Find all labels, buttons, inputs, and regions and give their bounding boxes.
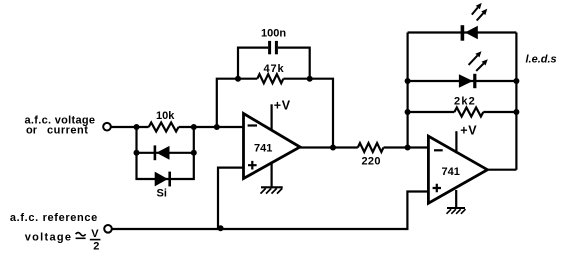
- supply +V lead of U1: [272, 98, 291, 131]
- svg-text:100n: 100n: [261, 28, 286, 40]
- wire: U2 output up right side: [487, 169, 516, 171]
- diode D1 (points left): [155, 145, 170, 160]
- diode D2 Si (points right): [155, 172, 170, 200]
- svg-text:V: V: [91, 228, 99, 240]
- ground of U2: [447, 190, 466, 214]
- wire: led row 1 (top): [408, 31, 517, 33]
- label: a.f.c. reference voltage ~ V/2: [10, 212, 101, 252]
- wire: led row 2: [408, 80, 517, 82]
- ground of U1: [261, 162, 283, 194]
- resistor R2 47k: [257, 63, 284, 83]
- reference terminal (a.f.c. reference voltage): [104, 225, 112, 233]
- svg-text:2k2: 2k2: [454, 95, 476, 107]
- svg-text:10k: 10k: [156, 110, 175, 122]
- svg-text:2: 2: [93, 240, 99, 252]
- svg-text:741: 741: [442, 166, 460, 178]
- op-amp U2 741: [428, 136, 487, 203]
- node: U2 inverting node / led box left: [405, 145, 411, 151]
- svg-text:a.f.c. reference: a.f.c. reference: [10, 212, 98, 224]
- svg-text:l.e.d.s: l.e.d.s: [526, 54, 557, 66]
- label: a.f.c. voltage / or current: [25, 114, 96, 136]
- wire: diode row 1 rail: [137, 152, 194, 154]
- node: main line / feedback left: [214, 124, 220, 130]
- wire: 10k to op-amp U1 inverting input: [179, 126, 244, 128]
- wire: U1 non-inverting input drop: [218, 168, 244, 229]
- node: main line / diode right: [191, 124, 197, 130]
- wire: feedback rail (inverting node up, across, down to output): [217, 79, 333, 148]
- resistor R4 2k2: [454, 95, 483, 116]
- wire: capacitor branch: [238, 48, 310, 79]
- svg-text:+V: +V: [460, 123, 477, 137]
- svg-text:47k: 47k: [264, 63, 285, 75]
- led LED1 (points left): [462, 25, 477, 41]
- light arrows of LED1: [472, 3, 488, 21]
- node: led box left / 2k2: [405, 109, 411, 115]
- svg-text:Si: Si: [157, 188, 167, 200]
- wire: 2k2 row: [408, 111, 517, 113]
- capacitor C1 100n: [261, 28, 286, 55]
- svg-text:voltage: voltage: [25, 232, 73, 244]
- resistor R1 10k: [149, 110, 179, 132]
- wire: U1 output to 220: [300, 146, 358, 148]
- node: output / feedback right: [330, 145, 336, 151]
- resistor R3 220: [358, 143, 384, 168]
- wire: diode clamp box (left + bottom + right rails): [137, 127, 194, 179]
- node: main line / diode left: [134, 124, 140, 130]
- svg-text:220: 220: [362, 156, 381, 168]
- node: led box right / 2k2: [513, 109, 519, 115]
- svg-text:741: 741: [254, 142, 272, 154]
- svg-text:+V: +V: [274, 98, 291, 112]
- wire: led box left vertical: [407, 33, 409, 148]
- supply +V lead of U2: [456, 123, 477, 153]
- svg-text:or: or: [26, 125, 38, 137]
- led LED2 (points right): [459, 74, 475, 88]
- node: led box right / row2: [513, 78, 519, 84]
- node: led box left / row2: [405, 78, 411, 84]
- wire: reference line to U2 non-inverting input: [112, 192, 428, 230]
- node: diode row1 left: [134, 150, 140, 156]
- input terminal (a.f.c. voltage or current): [103, 123, 111, 131]
- wire: 220 to op-amp U2 inverting input: [384, 146, 429, 148]
- node: 47k rail / cap left: [235, 76, 241, 82]
- node: 47k rail / cap right: [307, 76, 313, 82]
- node: diode row1 right: [191, 150, 197, 156]
- wire: input terminal to 10k resistor: [111, 126, 149, 128]
- light arrows of LED2: [469, 51, 488, 71]
- node: reference line / U1 + input: [218, 225, 224, 231]
- svg-text:current: current: [47, 125, 88, 137]
- op-amp U1 741: [244, 114, 301, 179]
- wire: led box right vertical: [515, 33, 517, 170]
